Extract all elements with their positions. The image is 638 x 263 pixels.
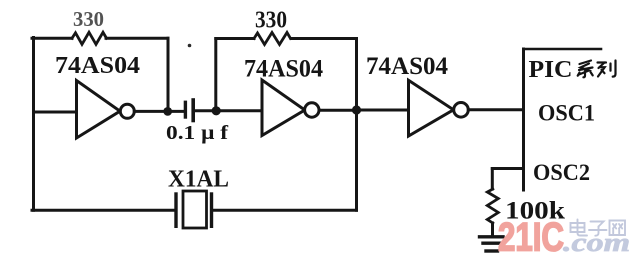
svg-text:74AS04: 74AS04 xyxy=(244,56,323,83)
wire: capacitor to U1B input xyxy=(195,109,262,112)
label Chinese 系列 (series) xyxy=(578,61,616,78)
wire: U1B output to node xyxy=(319,109,357,112)
node: junction of feedback 2 and C1 xyxy=(212,106,221,115)
crystal X1 body xyxy=(183,191,207,228)
svg-text:0.1 μ f: 0.1 μ f xyxy=(166,122,228,144)
svg-text:74AS04: 74AS04 xyxy=(366,53,448,80)
wire: U1A output to capacitor xyxy=(134,110,184,113)
resistor R2 330 xyxy=(254,33,291,45)
svg-text:X1AL: X1AL xyxy=(168,167,229,193)
wire: feedback loop 1 right vertical xyxy=(167,38,170,111)
ground symbol xyxy=(480,237,504,251)
wire: bottom crystal line, right of X1 xyxy=(213,209,356,212)
op-amp U1B inverter 74AS04 triangle xyxy=(262,80,305,136)
wire: node to U1C input xyxy=(357,109,409,112)
capacitor C1 right plate xyxy=(191,100,195,121)
wire: OSC2 stub xyxy=(492,167,523,170)
crystal X1 left plate xyxy=(174,194,177,226)
svg-text:21IC: 21IC xyxy=(498,216,564,260)
wire: feedback loop 2 top, left segment xyxy=(216,37,254,40)
wire: bottom crystal line, left of X1 xyxy=(32,209,174,212)
wire: feedback loop 2 left vertical xyxy=(214,39,217,111)
resistor R1 330 xyxy=(72,32,107,44)
wire: U1A input stub xyxy=(34,111,77,114)
svg-text:330: 330 xyxy=(73,7,104,31)
crystal X1 right plate xyxy=(210,194,213,226)
svg-text:330: 330 xyxy=(255,8,287,34)
op-amp U1C inverter bubble xyxy=(454,103,469,118)
wire: U1C output to PIC OSC1 xyxy=(468,108,523,111)
svg-text:OSC1: OSC1 xyxy=(538,101,595,126)
wire: loop 2 right vertical down to crystal line xyxy=(355,39,358,211)
wire: feedback loop 1 top, left segment xyxy=(32,37,72,40)
capacitor C1 left plate xyxy=(184,102,187,117)
op-amp U1C inverter 74AS04 triangle xyxy=(409,80,454,136)
wire: feedback loop 1 top, right segment xyxy=(106,37,168,40)
op-amp U1A inverter bubble xyxy=(120,104,134,118)
op-amp U1B inverter bubble xyxy=(305,103,319,117)
wire: OSC2 down to R3 xyxy=(491,169,494,190)
svg-text:.com: .com xyxy=(563,228,630,257)
wire: feedback loop 2 top, right segment xyxy=(291,37,357,40)
op-amp U1A inverter 74AS04 triangle xyxy=(77,81,121,139)
PIC block left edge xyxy=(522,49,525,190)
wire: R3 to ground xyxy=(491,223,494,237)
resistor R3 100k (vertical) xyxy=(487,189,498,223)
svg-text:PIC: PIC xyxy=(529,57,573,83)
ink speck xyxy=(188,44,192,48)
svg-text:OSC2: OSC2 xyxy=(533,160,590,185)
svg-text:74AS04: 74AS04 xyxy=(55,53,140,79)
node: junction U1B output / crystal / U1C input xyxy=(352,105,361,114)
wire: left vertical bus (inverter U1A input to feedback/crystal) xyxy=(32,38,35,211)
node: junction of feedback 1 and U1A output xyxy=(163,107,172,116)
watermark Chinese 电子网 xyxy=(571,220,626,236)
PIC block top edge xyxy=(524,48,602,51)
